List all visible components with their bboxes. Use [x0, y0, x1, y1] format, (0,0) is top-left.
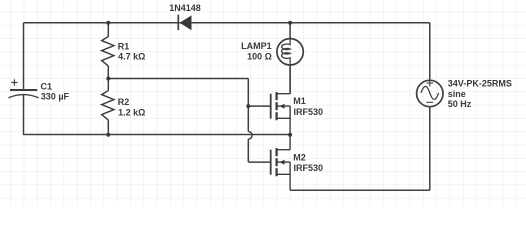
- svg-text:34V-PK-25RMS: 34V-PK-25RMS: [448, 79, 512, 89]
- svg-text:IRF530: IRF530: [294, 163, 324, 173]
- svg-text:100 Ω: 100 Ω: [247, 51, 272, 61]
- svg-text:50 Hz: 50 Hz: [448, 99, 472, 109]
- svg-text:IRF530: IRF530: [294, 107, 324, 117]
- svg-text:R1: R1: [118, 42, 130, 52]
- svg-text:330 µF: 330 µF: [41, 92, 70, 102]
- svg-text:sine: sine: [448, 89, 466, 99]
- svg-text:4.7 kΩ: 4.7 kΩ: [118, 52, 145, 62]
- svg-text:M2: M2: [293, 153, 306, 163]
- svg-text:M1: M1: [293, 96, 306, 106]
- svg-text:C1: C1: [41, 82, 53, 92]
- svg-text:1N4148: 1N4148: [169, 3, 201, 13]
- svg-text:R2: R2: [118, 97, 130, 107]
- svg-text:1.2 kΩ: 1.2 kΩ: [118, 107, 145, 117]
- svg-text:LAMP1: LAMP1: [241, 41, 272, 51]
